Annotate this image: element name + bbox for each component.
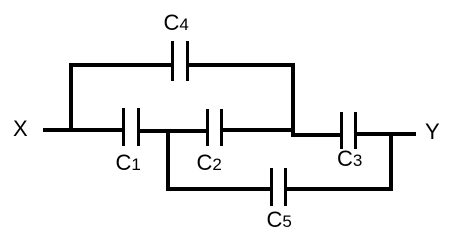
wire C1 to C2 — [140, 129, 206, 133]
wire X to C1 — [43, 128, 122, 132]
node Y — [425, 121, 440, 143]
capacitor C5 — [270, 168, 273, 206]
capacitor C1 — [122, 108, 125, 146]
label C3 — [337, 148, 362, 170]
capacitor C2 — [206, 109, 209, 147]
label C4 — [164, 12, 189, 34]
label C5 — [267, 209, 292, 231]
wire left vertical of bottom branch — [166, 129, 170, 191]
wire bottom branch right horizontal — [287, 187, 393, 191]
capacitor C4 — [171, 41, 174, 81]
wire top branch left horizontal — [69, 63, 171, 67]
label C2 — [197, 152, 222, 174]
wire right vertical of bottom branch — [389, 132, 393, 191]
wire right vertical of top branch — [291, 63, 295, 136]
label C1 — [116, 152, 141, 174]
wire C2 to top junction — [223, 128, 295, 132]
wire top branch right horizontal — [189, 63, 295, 67]
node X — [13, 118, 28, 140]
wire C3 to Y — [357, 132, 416, 136]
capacitor C3 — [340, 112, 343, 149]
wire top junction to C3 — [291, 133, 341, 137]
wire left vertical of top branch — [69, 63, 73, 132]
wire bottom branch left horizontal — [166, 187, 270, 191]
